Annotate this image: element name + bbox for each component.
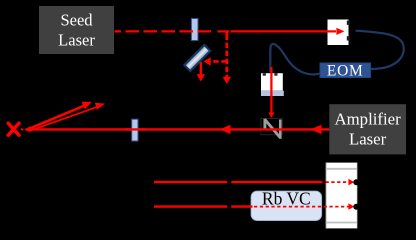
mirror M1 (tilted pickoff mirror) <box>184 45 210 71</box>
Rb VC label box <box>251 188 322 220</box>
beam block X mark <box>8 123 19 135</box>
waveplate WP2 (amplifier beam) <box>132 119 138 141</box>
svg-text:Seed: Seed <box>60 11 93 30</box>
top line dashed in cell with arrow <box>326 179 355 186</box>
optical fiber from EOM to FC2 <box>270 44 320 75</box>
amplifier laser box <box>329 104 406 154</box>
beam from FC2 down to flip mirror <box>268 67 274 118</box>
dashed branch toward mirror M1 with left arrow <box>204 57 227 65</box>
bottom line dashed through Rb VC with arrow <box>254 203 354 210</box>
svg-text:EOM: EOM <box>327 62 364 79</box>
svg-text:Laser: Laser <box>58 31 95 50</box>
svg-text:Laser: Laser <box>349 130 387 149</box>
lower beam pair: bottom line solid segments <box>154 205 253 207</box>
seed laser box <box>39 6 114 54</box>
lower beam pair: top line solid segments <box>154 181 323 183</box>
fiber coupler FC1 (top right, into fiber) <box>328 20 351 46</box>
fiber coupler FC2 (fiber output, beam down) <box>261 73 284 96</box>
main amplifier beam (leftward) <box>29 128 330 130</box>
upward diagonal beam B with arrow <box>30 100 106 131</box>
dashed pickoff beam down at junction <box>223 43 231 85</box>
EOM box <box>320 62 371 79</box>
optical fiber from FC1 to EOM <box>356 31 404 69</box>
reflected beam down from mirror M1 <box>197 62 205 82</box>
black dot (top beam) <box>353 179 359 185</box>
black dot (bottom beam) <box>353 204 359 210</box>
upward diagonal beam A with arrow <box>27 98 94 130</box>
beam over WP2 <box>125 128 145 130</box>
seed beam (solid) from junction to FC1 with arrow <box>231 28 345 35</box>
seed beam (dashed) from seed laser to junction <box>115 30 214 32</box>
flip mirror N (in amplifier beam) <box>261 118 282 138</box>
waveplate WP1 (top beam) <box>191 19 198 41</box>
junction elbow into pickoff branch <box>218 31 229 40</box>
svg-text:Rb VC: Rb VC <box>262 188 311 208</box>
svg-text:Amplifier: Amplifier <box>335 110 402 129</box>
left arrow on amplifier beam (center) <box>220 125 231 134</box>
left arrow on amplifier beam (near laser) <box>311 125 322 134</box>
small dash and left arrow at X <box>21 127 30 133</box>
rubidium vapor cell body (white) <box>326 163 357 229</box>
